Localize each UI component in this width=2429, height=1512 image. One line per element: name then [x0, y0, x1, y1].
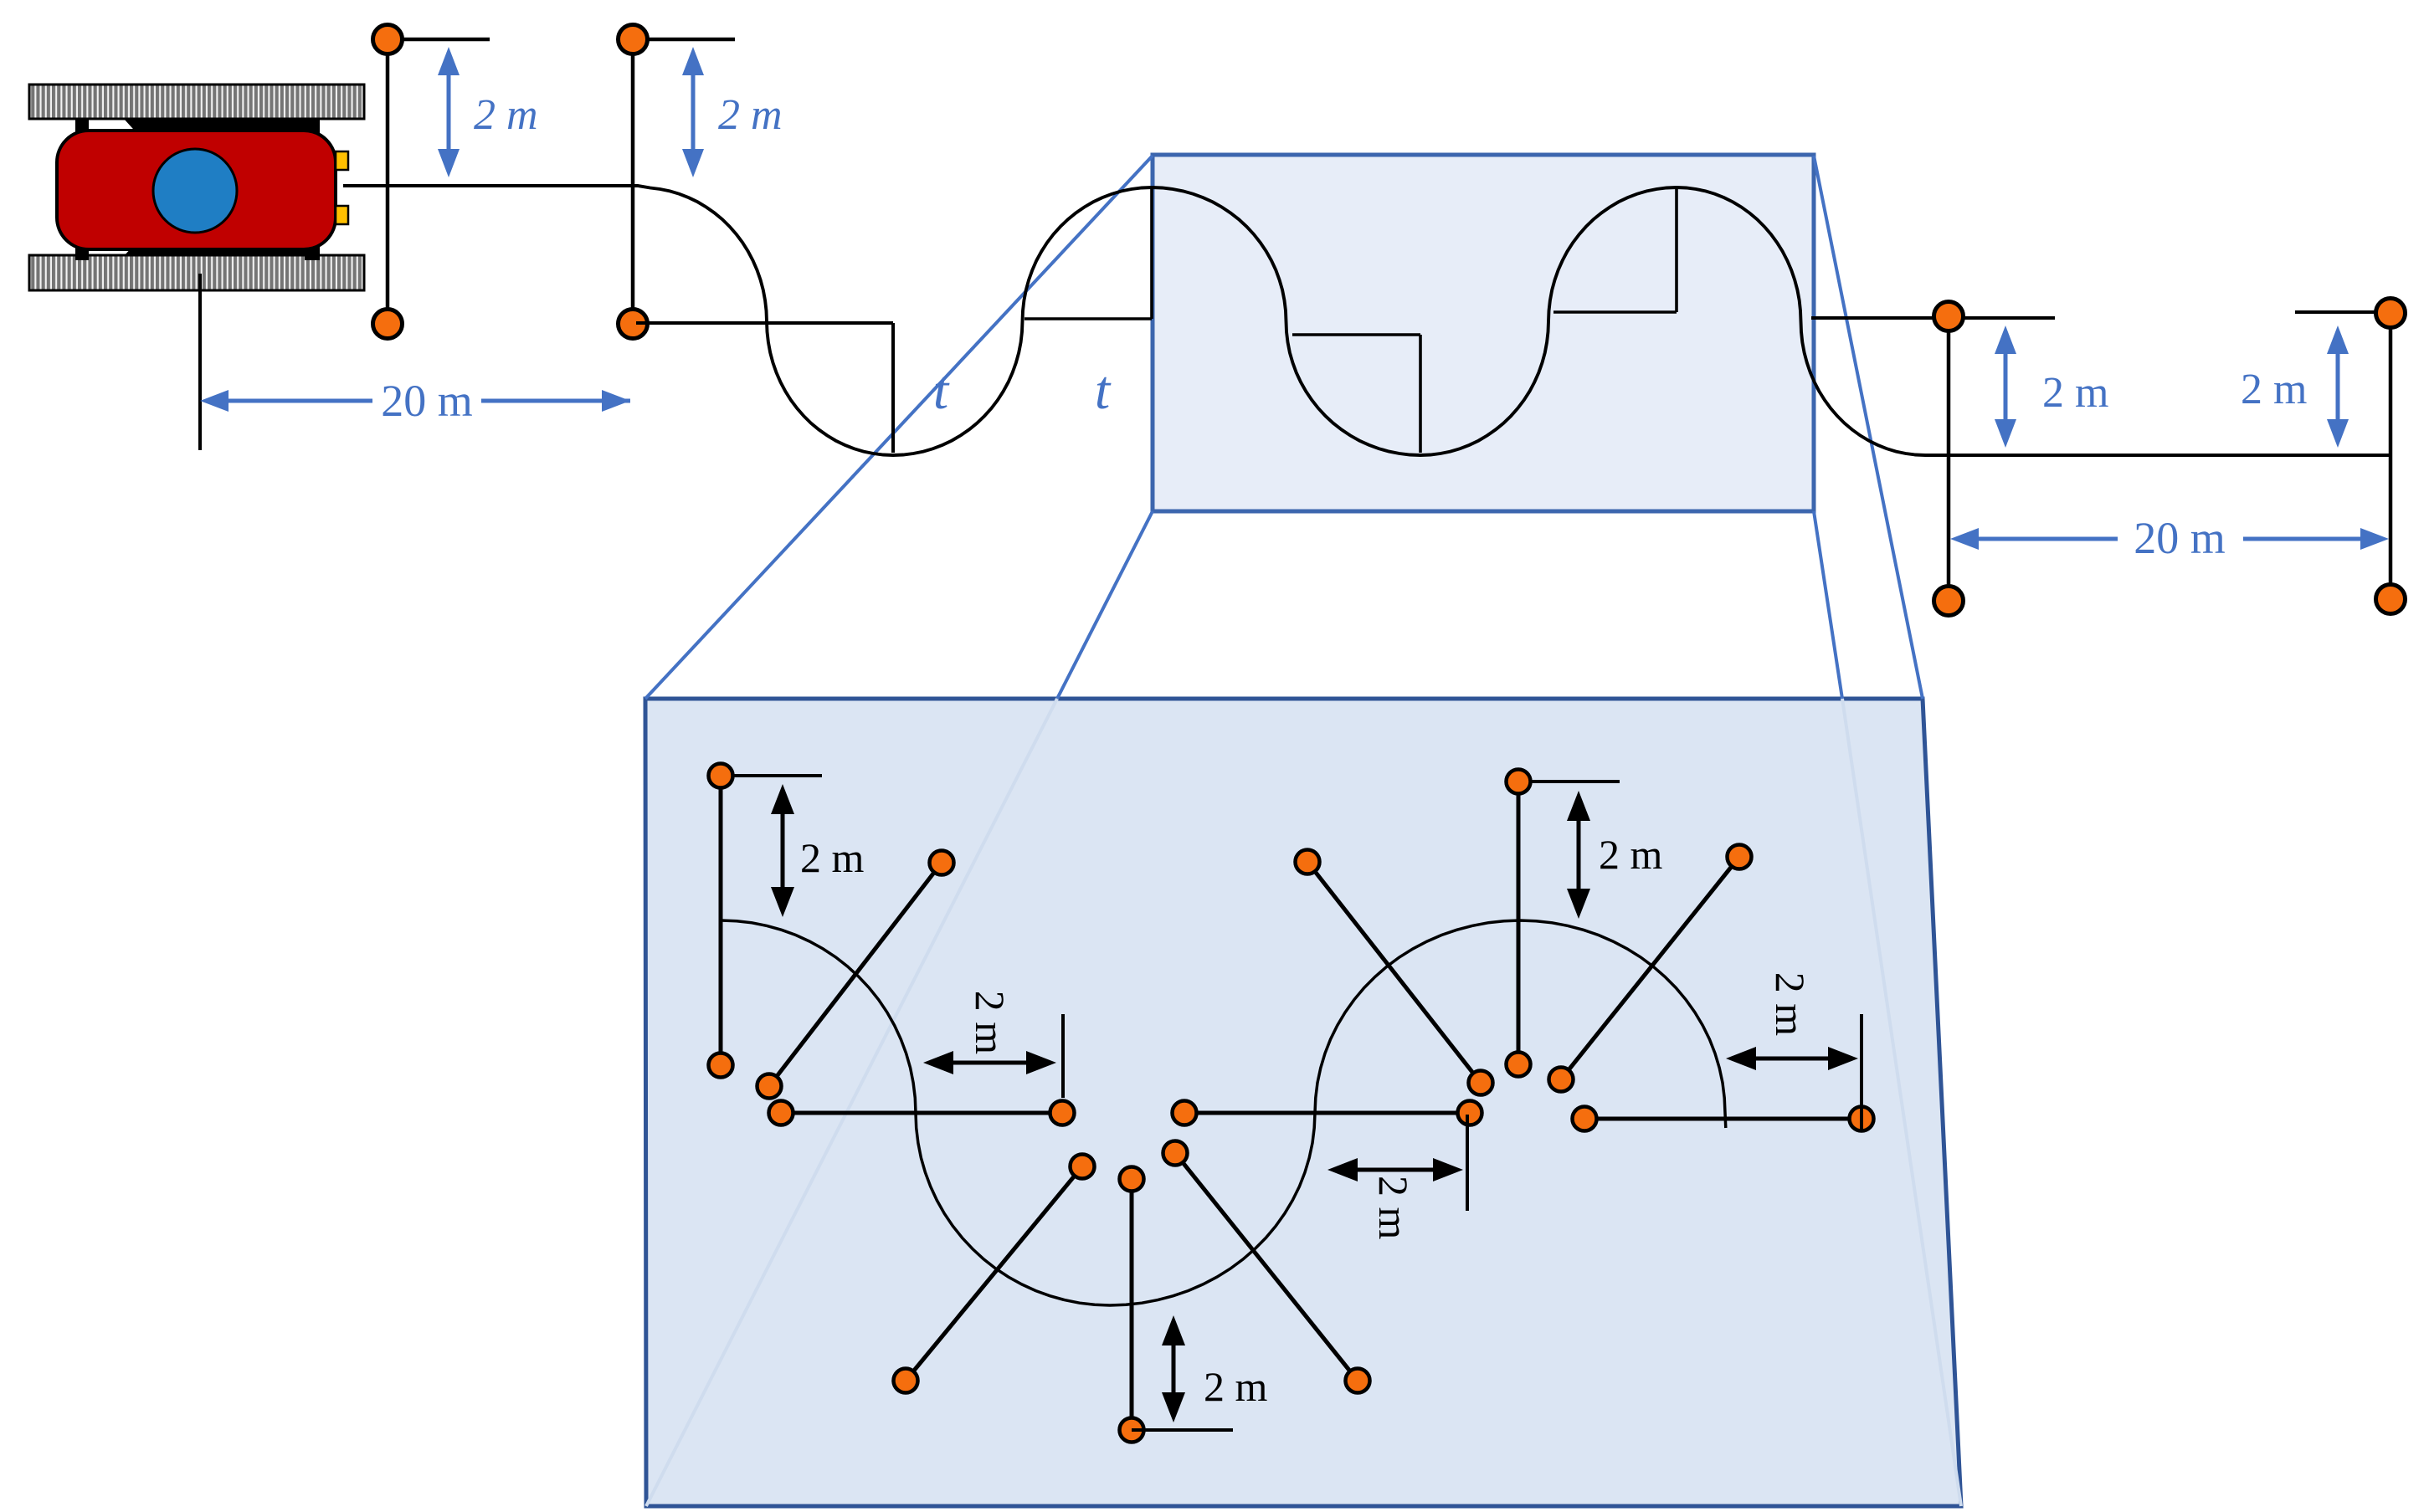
zoom gate G line	[1184, 1111, 1470, 1115]
zoom gate F line	[1175, 1153, 1358, 1381]
robot chassis wheels	[75, 118, 320, 260]
zoom gate D dot B	[894, 1369, 918, 1393]
zoom dim 2 m vertical middle	[1162, 1315, 1185, 1422]
zoom gate K dot A	[1573, 1107, 1597, 1131]
robot body	[57, 131, 336, 249]
zoom dim 2 m vertical left	[771, 784, 794, 917]
label t 2	[1095, 360, 1112, 421]
connector bottom-left faded	[646, 699, 1057, 1506]
zoom label 2 m right	[1599, 831, 1663, 878]
zoom dim 2 m vertical right	[1567, 791, 1590, 919]
zoom label 2 m left	[800, 834, 865, 881]
svg-text:2 m: 2 m	[718, 91, 783, 139]
label 2 m gate 4	[2241, 366, 2307, 413]
square wave step 4	[1553, 189, 1677, 312]
dimension 2 m arrow 1	[438, 47, 460, 177]
zoom gate E dot B	[1120, 1418, 1144, 1443]
label 20 m right	[2134, 513, 2226, 563]
svg-text:2 m: 2 m	[1204, 1363, 1268, 1410]
zoom dim 2 m horizontal left	[923, 1051, 1056, 1074]
label 20 m left	[381, 376, 473, 426]
zoom gate G tick	[1466, 1115, 1469, 1211]
dimension 2 m arrow 3	[1995, 325, 2016, 448]
zoom gate E dot A	[1120, 1167, 1144, 1192]
gate 2 top ref line	[633, 38, 735, 42]
zoom gate J dot B	[1549, 1068, 1574, 1092]
label 2 m gate 3	[2042, 369, 2108, 417]
zoom gate I line	[1517, 782, 1521, 1064]
robot top track	[29, 85, 364, 119]
zoom gate F dot B	[1346, 1369, 1370, 1393]
gate 2 line	[631, 39, 635, 324]
zoom gate E line	[1130, 1179, 1134, 1430]
svg-text:2 m: 2 m	[1767, 972, 1814, 1037]
dimension 2 m arrow 4	[2327, 325, 2349, 448]
zoom gate L line	[1307, 862, 1481, 1083]
zoom gate A line	[719, 776, 723, 1065]
gate 3 top dot	[1934, 302, 1964, 331]
zoom label 2 m rotated left	[967, 991, 1014, 1055]
robot centerline	[198, 274, 202, 450]
zoom gate I dot B	[1507, 1053, 1531, 1077]
zoom gate B dot B	[757, 1074, 782, 1099]
zoom gate K dot B	[1850, 1107, 1874, 1131]
robot headlight top	[336, 151, 348, 170]
zoom box	[645, 699, 1961, 1506]
zoom gate B dot A	[930, 851, 954, 875]
square wave step 2	[1024, 189, 1152, 319]
zoom gate K tick	[1860, 1014, 1863, 1131]
svg-text:2 m: 2 m	[2241, 366, 2307, 413]
zoom gate G dot B	[1458, 1101, 1482, 1125]
zoom label 2 m rotated middle	[1370, 1176, 1417, 1240]
connector top-right	[1814, 156, 1923, 699]
svg-text:t: t	[933, 360, 950, 421]
svg-text:2 m: 2 m	[1599, 831, 1663, 878]
gate 1 top ref line	[388, 38, 490, 42]
zoom wave path	[722, 920, 1726, 1305]
connector bottom-left outer	[1057, 511, 1153, 699]
label 2 m gate 1	[474, 91, 538, 139]
connector bottom-right faded	[1842, 699, 1961, 1506]
svg-text:2 m: 2 m	[2042, 369, 2108, 417]
svg-text:20 m: 20 m	[2134, 513, 2226, 563]
connector bottom-right outer	[1814, 511, 1842, 699]
zoom gate A dot A	[709, 764, 733, 788]
gate 2 bottom dot	[619, 310, 648, 339]
robot bottom track	[29, 255, 364, 290]
svg-text:2 m: 2 m	[800, 834, 865, 881]
zoom gate K line	[1584, 1117, 1862, 1121]
zoom gate D dot A	[1071, 1155, 1095, 1179]
gate 1 bottom dot	[373, 310, 403, 339]
square wave step 1	[636, 323, 893, 453]
zoom gate A ref line	[721, 774, 822, 777]
zoom gate E ref line	[1132, 1428, 1233, 1432]
gate 3 bottom dot	[1934, 587, 1964, 616]
zoom gate G dot A	[1173, 1101, 1197, 1125]
gate 4 top dot	[2376, 299, 2406, 328]
label t 1	[933, 360, 950, 421]
zoom label 2 m rotated right	[1767, 972, 1814, 1037]
dimension 2 m arrow 2	[682, 47, 704, 177]
zoom gate I dot A	[1507, 770, 1531, 794]
zoom gate B line	[769, 863, 942, 1086]
zoom gate L dot B	[1469, 1071, 1493, 1095]
svg-text:2 m: 2 m	[1370, 1176, 1417, 1240]
square wave step 3	[1292, 335, 1420, 453]
label 2 m gate 2	[718, 91, 783, 139]
zoom gate F dot A	[1163, 1141, 1188, 1166]
gate 3 line	[1947, 318, 1951, 601]
svg-text:t: t	[1095, 360, 1112, 421]
zoom gate C dot B	[1050, 1101, 1075, 1125]
zoom gate A dot B	[709, 1053, 733, 1078]
robot sensor circle	[153, 149, 237, 233]
dimension 20 m left arrows	[200, 390, 630, 412]
robot headlight bottom	[336, 206, 348, 224]
gate 4 bottom dot	[2376, 585, 2406, 614]
dimension 20 m right arrows	[1950, 528, 2389, 550]
connector top-left	[645, 156, 1153, 699]
zoom gate C dot A	[769, 1101, 793, 1125]
gate 2 top dot	[619, 25, 648, 54]
robot path wave	[343, 186, 2392, 455]
zoom label 2 m middle	[1204, 1363, 1268, 1410]
zoom dim 2 m horizontal right	[1726, 1047, 1858, 1070]
zoom gate D line	[906, 1166, 1082, 1381]
gate 1 line	[386, 39, 390, 324]
highlight rectangle	[1153, 155, 1814, 511]
svg-text:20 m: 20 m	[381, 376, 473, 426]
gate 1 top dot	[373, 25, 403, 54]
gate 4 top ref line	[2295, 310, 2390, 314]
zoom gate L dot A	[1296, 850, 1320, 874]
zoom dim 2 m horizontal middle	[1327, 1158, 1463, 1181]
zoom gate J line	[1561, 857, 1739, 1079]
zoom gate C line	[781, 1111, 1062, 1115]
zoom gate I ref line	[1518, 780, 1620, 783]
gate 4 line	[2389, 312, 2393, 599]
zoom gate C tick	[1061, 1014, 1065, 1098]
gate 3 top ref line	[1811, 316, 2055, 320]
zoom gate J dot A	[1728, 845, 1752, 869]
svg-text:2 m: 2 m	[967, 991, 1014, 1055]
svg-text:2 m: 2 m	[474, 91, 538, 139]
